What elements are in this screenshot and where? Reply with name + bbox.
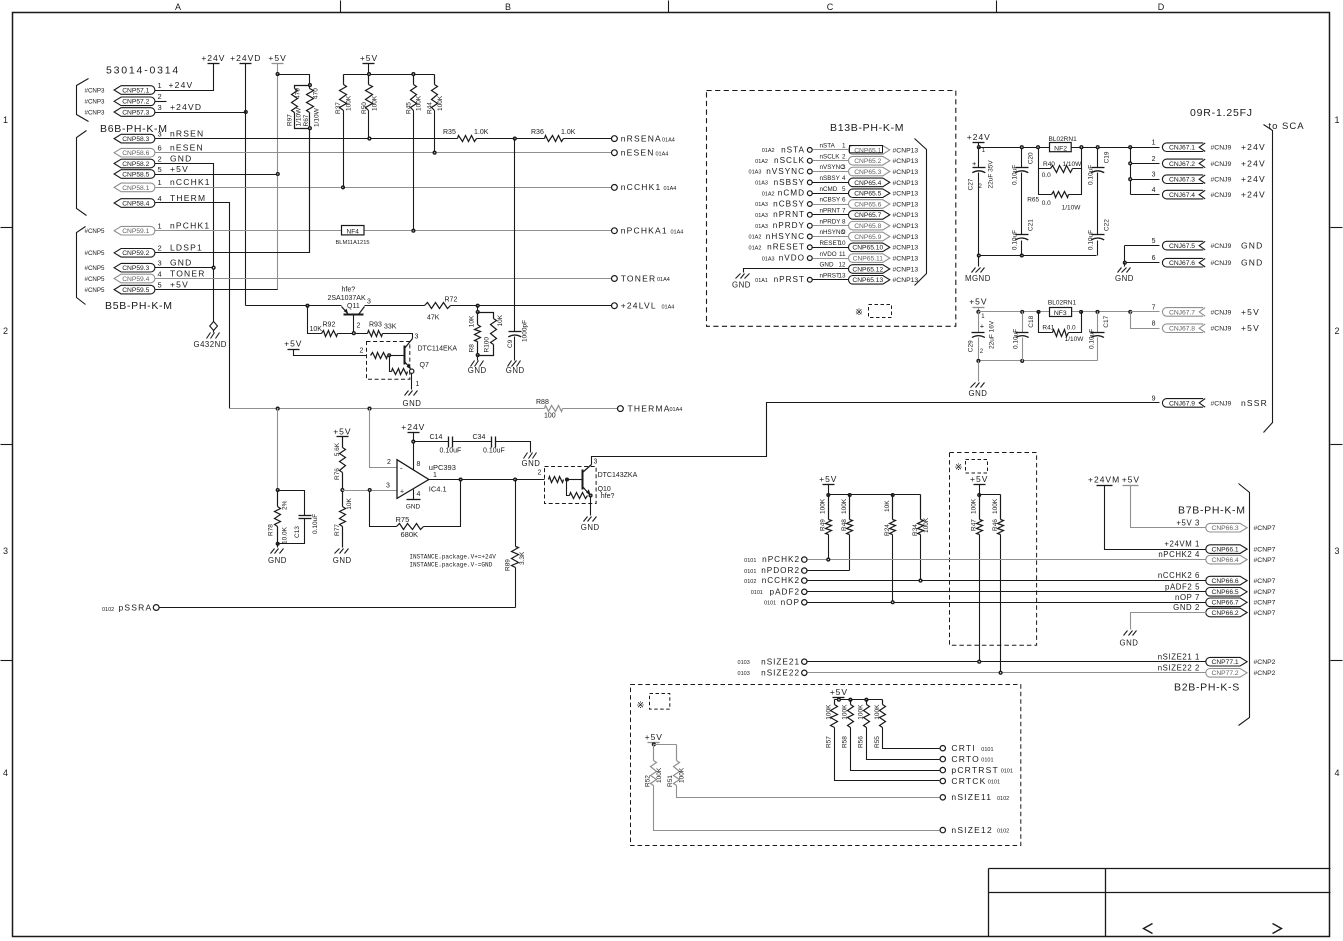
connector CNJ67.2 (1162, 159, 1203, 168)
svg-text:#CNJ9: #CNJ9 (1211, 192, 1232, 199)
wire pin3 node (343, 490, 397, 492)
junction +5V R45 (412, 73, 415, 76)
svg-text:2SA1037AK: 2SA1037AK (328, 295, 366, 302)
resistor R8 (477, 306, 479, 313)
svg-text:3: 3 (3, 546, 8, 556)
svg-text:R40: R40 (1043, 161, 1055, 168)
svg-text:INSTANCE.package.V+=+24V: INSTANCE.package.V+=+24V (409, 554, 496, 561)
svg-text:GND: GND (522, 459, 541, 468)
svg-text:#CNJ9: #CNJ9 (1211, 260, 1232, 267)
svg-text:nCCHK1: nCCHK1 (621, 182, 662, 192)
svg-text:1/10W: 1/10W (296, 107, 303, 127)
svg-text:+24VD: +24VD (170, 102, 202, 112)
svg-text:+24V: +24V (169, 80, 194, 90)
terminal nCMD B13B row 5 (807, 191, 812, 196)
svg-text:IC4.1: IC4.1 (429, 485, 447, 494)
connector CNJ67.9 (1162, 399, 1203, 408)
svg-text:01A2: 01A2 (762, 148, 775, 154)
junction +5V node C29 (977, 311, 980, 314)
junction filter node (1096, 146, 1099, 149)
junction +5V R47 (978, 494, 981, 497)
svg-text:R52: R52 (644, 775, 651, 787)
svg-text:※: ※ (955, 462, 963, 473)
terminal nPRST B13B row 13 (807, 277, 812, 282)
junction +5V R50 (368, 73, 371, 76)
svg-text:CNP59.4: CNP59.4 (122, 276, 149, 283)
svg-text:-: - (400, 463, 403, 472)
svg-text:#CNP7: #CNP7 (1254, 610, 1276, 617)
svg-text:pADF2: pADF2 (770, 587, 800, 596)
svg-text:R34: R34 (912, 524, 919, 536)
svg-text:0.10uF: 0.10uF (1012, 230, 1019, 250)
resistor R75 680K feedback (370, 491, 397, 527)
terminal nPRNT B13B row 7 (807, 212, 812, 217)
connector CNP65.10 (849, 243, 890, 252)
capacitor C18 0.10uF (1022, 312, 1024, 333)
resistor R34 100K (920, 495, 922, 520)
svg-text:nSIZE21: nSIZE21 (761, 657, 800, 666)
bracket CNP66 group (1239, 484, 1250, 726)
connector CNP65.1 (849, 146, 890, 155)
svg-text:+5V: +5V (360, 53, 378, 63)
wire TONER (155, 278, 612, 280)
svg-text:NF3: NF3 (1054, 310, 1067, 317)
svg-text:#CNP7: #CNP7 (1254, 578, 1276, 585)
wire nVSYNC to CNP65.3 (813, 171, 849, 173)
terminal nSCLK B13B row 2 (807, 158, 812, 163)
svg-text:B13B-PH-K-M: B13B-PH-K-M (830, 122, 904, 134)
svg-text:6: 6 (158, 144, 162, 153)
svg-text:+5V: +5V (1241, 323, 1260, 333)
svg-text:100K: 100K (820, 498, 827, 514)
svg-text:nPCHK1: nPCHK1 (170, 221, 210, 231)
svg-text:0.10uF: 0.10uF (1012, 329, 1019, 349)
wire nSIZE21 row (808, 661, 1207, 663)
capacitor C27 22uF 35V (978, 148, 980, 168)
terminal nCCHK1 (612, 185, 618, 191)
resistor R88 (545, 406, 563, 412)
svg-text:R78: R78 (268, 524, 275, 536)
svg-text:01A4: 01A4 (656, 151, 669, 157)
ground C34 (524, 453, 528, 459)
svg-text:nPDOR2: nPDOR2 (761, 566, 800, 575)
svg-text:#CNP5: #CNP5 (85, 276, 106, 283)
connector CNP66.5 (1206, 588, 1247, 597)
svg-text:R51: R51 (667, 775, 674, 787)
svg-text:CNP66.2: CNP66.2 (1212, 610, 1239, 617)
svg-text:10K: 10K (346, 497, 353, 509)
svg-text:B: B (505, 2, 511, 12)
junction Q11 base node (352, 332, 355, 335)
connector CNP59.2 (114, 249, 155, 258)
svg-text:0103: 0103 (738, 671, 750, 677)
svg-text:CNP65.8: CNP65.8 (854, 223, 881, 230)
svg-text:R49: R49 (820, 519, 827, 531)
svg-text:hfe?: hfe? (342, 286, 356, 293)
svg-text:+5V: +5V (819, 474, 837, 484)
svg-text:0.10uF: 0.10uF (483, 448, 505, 455)
svg-text:01A4: 01A4 (664, 186, 677, 192)
svg-text:nCBSY: nCBSY (773, 199, 805, 208)
digital transistor Q7 DTC114EKA (367, 342, 410, 380)
svg-text:#CNP13: #CNP13 (893, 158, 919, 165)
ferrite bead NF4 (342, 226, 365, 235)
svg-text:#CNP13: #CNP13 (893, 266, 919, 273)
svg-text:+24V: +24V (1241, 174, 1266, 184)
svg-text:680K: 680K (401, 530, 419, 539)
title block (989, 868, 1331, 870)
resistor R78 10.0K 2% (277, 491, 279, 507)
wire to CNJ67.4 (1131, 194, 1160, 196)
svg-text:CNP65.11: CNP65.11 (853, 256, 884, 263)
svg-text:nESEN: nESEN (170, 143, 204, 153)
svg-text:nVSYNC: nVSYNC (766, 167, 805, 176)
junction filter2 node (1080, 311, 1083, 314)
resistor R48 100K (849, 495, 851, 520)
svg-text:pADF2 5: pADF2 5 (1165, 582, 1200, 591)
wire nPCHK2 row (808, 559, 1207, 561)
connector CNJ67.4 (1162, 190, 1203, 199)
junction pin3 R75 (368, 489, 371, 492)
terminal nSIZE21 (802, 659, 807, 664)
svg-text:nVDO: nVDO (820, 251, 837, 258)
svg-text:+24LVL: +24LVL (621, 301, 657, 311)
svg-text:+5V: +5V (969, 297, 987, 307)
wire +24V to pin8 (413, 433, 415, 470)
svg-text:CNP65.5: CNP65.5 (854, 191, 881, 198)
svg-text:2: 2 (158, 244, 162, 253)
wire +24V filter node (979, 147, 1131, 149)
svg-text:C22: C22 (1104, 219, 1111, 231)
svg-text:GND: GND (1241, 258, 1264, 268)
svg-text:22uF 16V: 22uF 16V (989, 320, 996, 349)
svg-text:INSTANCE.package.V-=GND: INSTANCE.package.V-=GND (409, 562, 492, 569)
svg-text:+: + (972, 159, 977, 168)
resistor R100 (478, 313, 494, 319)
wire Q7 emitter to GND (411, 374, 413, 390)
svg-text:0102: 0102 (997, 796, 1009, 802)
svg-text:R100: R100 (484, 337, 491, 353)
svg-text:1/10W: 1/10W (1065, 336, 1085, 343)
svg-text:C29: C29 (967, 340, 974, 352)
svg-text:#CNP13: #CNP13 (893, 234, 919, 241)
ground opamp pin4 (407, 499, 421, 501)
wire R36 to nRSENA terminal (564, 138, 612, 140)
svg-text:#CNP13: #CNP13 (893, 277, 919, 284)
digital transistor Q10 DTC143ZKA (545, 467, 597, 504)
svg-text:Q10: Q10 (598, 486, 611, 493)
wire CNJ67 pins 2-4 vertical (1130, 148, 1132, 195)
svg-text:LDSP1: LDSP1 (170, 243, 203, 253)
svg-text:nPRST: nPRST (820, 273, 840, 280)
junction nCCHK1 R37 (342, 186, 345, 189)
svg-text:01A3: 01A3 (749, 170, 762, 176)
wire +5V filter node (979, 311, 1131, 313)
wire nPRNT to CNP65.7 (813, 214, 849, 216)
svg-text:C34: C34 (473, 434, 486, 441)
svg-text:CNP58.6: CNP58.6 (122, 150, 149, 157)
svg-text:1: 1 (416, 381, 420, 388)
terminal nESEN (612, 150, 618, 156)
junction R78 C13 top (276, 489, 279, 492)
svg-text:R58: R58 (842, 736, 849, 748)
resistor R41 0.0 1/10W (1039, 312, 1053, 333)
svg-text:0.10uF: 0.10uF (1087, 165, 1094, 185)
ruler tick top 3 (996, 1, 998, 13)
junction nESEN R44 (433, 151, 436, 154)
wire pin4 to GND (413, 490, 415, 500)
ground B13B GND (736, 274, 741, 279)
svg-text:4: 4 (1152, 187, 1156, 194)
svg-text:CNP77.2: CNP77.2 (1212, 670, 1239, 677)
resistor R51 100K (676, 745, 678, 761)
resistor R89 3.3K (515, 480, 517, 547)
svg-text:DTC143ZKA: DTC143ZKA (598, 472, 638, 479)
wire R78 to GND (277, 544, 279, 548)
ground NF3 GND (978, 361, 980, 382)
svg-text:100K: 100K (372, 95, 379, 111)
resistor R56 100K (866, 700, 868, 705)
svg-text:9: 9 (1152, 395, 1156, 402)
svg-text:CNP66.7: CNP66.7 (1212, 600, 1239, 607)
svg-text:2: 2 (357, 323, 361, 330)
wire +24VM to CNP66.1 (1105, 486, 1207, 550)
connector CNP57.3 (114, 108, 155, 117)
svg-text:#CNP7: #CNP7 (1254, 557, 1276, 564)
svg-text:R93: R93 (369, 321, 382, 328)
svg-text:13: 13 (838, 273, 846, 280)
wire to CNJ67.2 (1131, 163, 1160, 165)
svg-text:R24: R24 (884, 524, 891, 536)
svg-text:CNP77.1: CNP77.1 (1212, 659, 1239, 666)
resistor R46 100K (1000, 495, 1002, 520)
terminal nPRDY B13B row 8 (807, 223, 812, 228)
svg-text:nCCHK2: nCCHK2 (762, 576, 800, 585)
svg-text:C13: C13 (294, 526, 301, 538)
connector CNP58.5 (114, 170, 155, 179)
svg-text:0102: 0102 (744, 579, 756, 585)
resistor R57 100K (834, 700, 836, 705)
terminal TONER (612, 276, 618, 282)
svg-text:nCCHK2 6: nCCHK2 6 (1158, 571, 1200, 580)
svg-text:CNJ67.7: CNJ67.7 (1169, 309, 1195, 316)
svg-text:CNP66.5: CNP66.5 (1212, 589, 1239, 596)
svg-text:3: 3 (415, 334, 419, 341)
svg-text:nCMD: nCMD (778, 189, 805, 198)
svg-text:GND: GND (506, 366, 525, 375)
svg-text:CNP58.4: CNP58.4 (122, 200, 149, 207)
svg-text:nSCLK: nSCLK (820, 153, 841, 160)
svg-text:0.10uF: 0.10uF (312, 514, 319, 534)
wire CNP59.3 GND (155, 267, 214, 269)
connector CNP59.4 (114, 274, 155, 283)
junction nPCHK1 R45 (412, 229, 415, 232)
svg-text:+: + (980, 322, 985, 331)
svg-text:01A3: 01A3 (762, 256, 775, 262)
terminal nSTA B13B row 1 (807, 148, 812, 153)
box kome B13B (869, 305, 892, 318)
terminal pADF2 (802, 589, 807, 594)
svg-text:#CNP13: #CNP13 (893, 191, 919, 198)
wire R72 to +24LVL terminal (451, 305, 612, 307)
terminal nCCHK2 (802, 578, 807, 583)
wire R44 to nESEN (434, 111, 436, 153)
svg-text:CNP65.2: CNP65.2 (854, 158, 881, 165)
svg-text:GND: GND (170, 153, 193, 163)
svg-text:01A2: 01A2 (749, 235, 762, 241)
svg-text:nPRDY: nPRDY (820, 218, 842, 225)
wire stub CNP57.2 (155, 101, 167, 103)
terminal CRTO (940, 756, 945, 761)
wire filter bottom line (979, 255, 1097, 257)
svg-text:R8: R8 (469, 344, 476, 353)
capacitor C9 1000pF (509, 331, 522, 333)
svg-text:nSIZE21 1: nSIZE21 1 (1158, 652, 1200, 661)
svg-text:2: 2 (538, 470, 542, 477)
connector CNP65.2 (848, 156, 889, 165)
connector CNP66.3 (1206, 523, 1247, 532)
svg-text:CNP66.1: CNP66.1 (1212, 547, 1239, 554)
svg-text:4: 4 (3, 768, 8, 778)
wire +24LVL line (246, 305, 342, 307)
wire +5V to CNJ67.7 (1131, 311, 1160, 313)
svg-text:#CNP13: #CNP13 (893, 223, 919, 230)
ruler tick top 2 (668, 1, 670, 13)
svg-text:#CNJ9: #CNJ9 (1211, 177, 1232, 184)
svg-text:CNP65.9: CNP65.9 (854, 234, 881, 241)
connector CNJ67.3 (1162, 175, 1203, 184)
svg-text:33K: 33K (384, 323, 397, 330)
terminal nPCHKA1 (612, 228, 618, 234)
svg-text:R35: R35 (443, 129, 456, 136)
svg-text:#CNP5: #CNP5 (85, 265, 106, 272)
svg-text:R56: R56 (858, 736, 865, 748)
connector CNJ67.5 (1162, 241, 1203, 250)
svg-text:C: C (827, 2, 834, 12)
ground CNP66 GND (1124, 631, 1128, 636)
svg-text:10K: 10K (310, 326, 323, 333)
svg-text:8: 8 (842, 218, 846, 225)
resistor R72 (425, 303, 451, 309)
junction output R75 (459, 478, 462, 481)
svg-text:Q11: Q11 (347, 303, 360, 310)
svg-text:3: 3 (842, 164, 846, 171)
resistor R36 (545, 136, 564, 142)
svg-text:10: 10 (838, 240, 846, 247)
svg-text:nHSYNC: nHSYNC (766, 232, 805, 241)
svg-text:100K: 100K (923, 517, 930, 533)
connector CNP59.3 (114, 263, 155, 272)
svg-text:B5B-PH-K-M: B5B-PH-K-M (105, 300, 173, 312)
ruler tick left 1 (1, 227, 13, 229)
svg-text:CNP65.12: CNP65.12 (852, 266, 883, 273)
junction filter node (1129, 146, 1132, 149)
capacitor C22 0.10uF (1092, 234, 1105, 236)
capacitor C34 0.10uF (491, 437, 493, 448)
capacitor C21 0.10uF (1016, 234, 1029, 236)
wire nCMD to CNP65.5 (813, 193, 849, 195)
svg-text:1.0K: 1.0K (561, 129, 576, 136)
connector CNP65.13 (848, 275, 889, 284)
svg-text:C14: C14 (430, 434, 443, 441)
svg-text:3: 3 (367, 298, 371, 305)
wire CRT pullup node (835, 699, 883, 701)
svg-text:1.0K: 1.0K (474, 129, 489, 136)
connector CNP66.1 (1206, 545, 1247, 554)
svg-text:01A2: 01A2 (749, 246, 762, 252)
wire nPRDY to CNP65.8 (813, 225, 849, 227)
svg-text:1: 1 (842, 143, 846, 150)
wire GND to CNJ67.5 (1125, 245, 1160, 247)
svg-text:CNP58.5: CNP58.5 (122, 171, 149, 178)
svg-text:CNJ67.5: CNJ67.5 (1169, 243, 1195, 250)
connector CNP59.5 (114, 285, 155, 294)
svg-text:0.10uF: 0.10uF (1089, 329, 1096, 349)
wire CNP59.5 +5V (155, 289, 278, 291)
resistor R93 (368, 331, 383, 337)
box highlight CNP65.1 (850, 146, 883, 153)
connector CNP65.7 (849, 211, 890, 220)
svg-text:0.0: 0.0 (1042, 172, 1051, 179)
wire pSSRA (160, 607, 516, 609)
svg-text:BL02RN1: BL02RN1 (1048, 300, 1077, 307)
svg-text:+5V: +5V (1241, 307, 1260, 317)
resistor R97 (295, 86, 310, 89)
svg-text:CRTI: CRTI (951, 743, 975, 753)
svg-text:#CNP13: #CNP13 (893, 169, 919, 176)
connector CNP65.11 (848, 254, 889, 263)
wire GND to CNP65.12 (744, 269, 849, 273)
wire filter2 bottom line (979, 360, 1098, 362)
wire CNP58.5 +5V (155, 174, 278, 176)
svg-text:100K: 100K (416, 95, 423, 111)
svg-text:CNP59.3: CNP59.3 (122, 265, 149, 272)
svg-text:nRSENA: nRSENA (621, 134, 662, 144)
wire nESEN (155, 152, 612, 154)
svg-text:nSTA: nSTA (820, 143, 836, 150)
svg-text:100K: 100K (992, 498, 999, 514)
wire nCBSY to CNP65.6 (813, 204, 849, 206)
wire nPDOR2 row (808, 570, 850, 572)
svg-text:GND: GND (468, 366, 487, 375)
svg-text:#CNP13: #CNP13 (893, 256, 919, 263)
svg-text:+5V 3: +5V 3 (1176, 518, 1200, 527)
svg-text:G432ND: G432ND (194, 340, 227, 349)
wire +24V to C14 (414, 441, 449, 443)
svg-text:01A4: 01A4 (662, 137, 675, 143)
svg-text:4: 4 (417, 491, 421, 498)
junction +5V rail to R97 feed (276, 73, 279, 76)
wire R8 to GND (477, 356, 479, 361)
svg-text:R92: R92 (323, 321, 336, 328)
terminal CRTCK (940, 778, 945, 783)
svg-text:2: 2 (360, 348, 364, 355)
svg-text:R67: R67 (303, 114, 310, 126)
interface block B13B dashed box (707, 91, 956, 327)
svg-text:4: 4 (158, 194, 162, 203)
svg-text:CNJ67.4: CNJ67.4 (1169, 192, 1195, 199)
connector CNP58.1 (114, 183, 155, 192)
svg-text:CNJ67.3: CNJ67.3 (1169, 177, 1195, 184)
svg-text:#CNJ9: #CNJ9 (1211, 145, 1232, 152)
svg-text:R48: R48 (841, 519, 848, 531)
svg-text:nCCHK1: nCCHK1 (170, 177, 211, 187)
svg-text:C20: C20 (1028, 152, 1035, 164)
capacitor C13 (278, 491, 305, 516)
capacitor C17 0.10uF (1097, 312, 1099, 333)
svg-text:nVDO: nVDO (779, 254, 805, 263)
svg-text:R47: R47 (971, 519, 978, 531)
